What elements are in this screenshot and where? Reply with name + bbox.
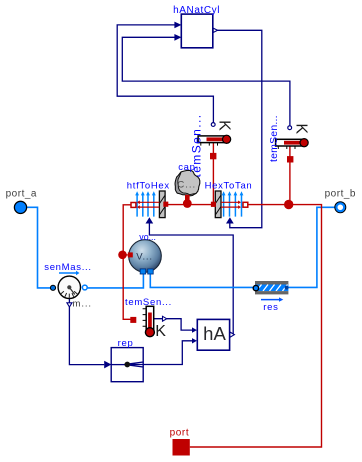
wire: temSen.T (tank sensor) to hA input u1 [154, 319, 192, 330]
heat wire: temSen1 heatPort drop [212, 143, 214, 205]
svg-text:port: port [170, 427, 190, 438]
node: junction temSen2 / tank net [284, 200, 293, 209]
wire: senMasFlo to vol port 1 (fluid) [87, 274, 143, 288]
block hA [192, 319, 234, 350]
fluid volume vol [128, 240, 161, 274]
heat wire: temSen2 heatPort drop [289, 146, 291, 205]
svg-text:K: K [215, 120, 232, 131]
wire: hANatCyl output y to HexToTan Gc input [217, 30, 262, 227]
wire: hA output to htfToHex Gc input [149, 223, 233, 335]
wire: temSen2.T to hANatCyl input u2 [122, 37, 290, 126]
wire: temSen1.T to hANatCyl input u1 [117, 25, 213, 123]
fluid port port_b [335, 202, 346, 213]
wire: port_a to senMasFlo (fluid) [27, 207, 56, 288]
temperature sensor temSen1 (rotated 90) [198, 123, 231, 160]
temperature sensor temSen2 (rotated 90) [276, 126, 309, 163]
svg-text:temSen...: temSen... [268, 115, 280, 162]
flow resistance res [253, 281, 288, 302]
svg-text:port_a: port_a [6, 189, 37, 200]
svg-text:port_b: port_b [325, 189, 356, 200]
svg-text:cap: cap [178, 162, 195, 173]
svg-text:m...: m... [73, 299, 92, 310]
heat wire: vol heatPort stub [123, 254, 128, 256]
svg-text:hANatCyl: hANatCyl [173, 5, 220, 16]
temperature sensor temSen (tank side) [130, 306, 166, 336]
replicator rep [104, 348, 143, 382]
node: junction cap / HX wall net [183, 199, 192, 208]
mass flow sensor senMasFlo [50, 271, 87, 307]
wire: vol port 2 to res (fluid) [150, 274, 253, 288]
heat capacitor cap [175, 170, 200, 200]
svg-text:senMas...: senMas... [44, 262, 91, 273]
svg-text:temSen...: temSen... [125, 297, 172, 308]
svg-text:K: K [292, 123, 309, 134]
heat wire: htfToHex fluid port to vol heatPort and temSen [123, 205, 136, 319]
heat port port [173, 439, 190, 456]
heat wire: HexToTan fluid port to bottom heat port [190, 205, 322, 447]
wire: senMasFlo m_flow output to rep input [69, 299, 104, 365]
fluid port port_a [14, 201, 26, 213]
output connector hANatCyl y [213, 28, 217, 32]
wire: res to port_b (fluid) [288, 207, 335, 287]
convection HexToTan [211, 191, 248, 224]
input arrow hANatCyl u2 [174, 34, 181, 41]
svg-text:hA: hA [203, 323, 226, 344]
svg-text:htfToHex: htfToHex [127, 180, 170, 191]
wire: rep output to hA input u2 [143, 341, 192, 365]
svg-text:res: res [263, 302, 278, 313]
svg-text:rep: rep [118, 338, 134, 349]
svg-text:C...: C... [177, 179, 196, 190]
svg-text:vo...: vo... [139, 232, 156, 242]
svg-text:V...: V... [136, 252, 153, 263]
block U1 hANatCyl [181, 14, 213, 48]
input arrow hANatCyl u1 [174, 22, 181, 29]
node: junction vol heatPort [118, 251, 127, 260]
heat wire: htfToHex solid port to HexToTan solid port [163, 204, 213, 206]
svg-text:K: K [155, 323, 166, 340]
convection htfToHex [131, 191, 168, 224]
svg-text:HexToTan: HexToTan [205, 180, 253, 191]
